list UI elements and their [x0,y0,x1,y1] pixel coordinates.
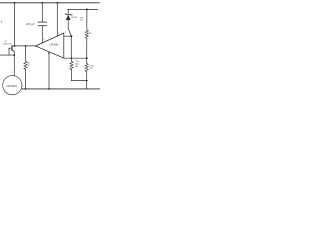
op-amp U1 triangle [36,33,64,58]
svg-text:(2N2222): (2N2222) [3,43,12,45]
resistor R4 [85,9,88,58]
wire supply pin vertical [56,3,58,36]
resistor R2 [24,46,27,89]
node divider join dot [86,80,88,82]
wire second rail [68,8,98,10]
svg-text:3: 3 [43,39,44,41]
node emitter junction dot [13,54,15,56]
wire D1 anode lead [68,20,71,36]
wire amp pin 4 down [48,53,50,89]
node mid divider junction dot [86,57,88,59]
resistor R3 [70,58,73,80]
svg-text:6: 6 [58,33,59,35]
wire ground pin horizontal [64,57,87,59]
wire top supply rail [0,2,99,4]
wire feedback horizontal [64,35,72,37]
svg-text:1N914: 1N914 [71,17,78,19]
svg-text:S: S [1,20,3,24]
node pin 4 ground dot [48,88,50,90]
resistor R5 [85,58,88,80]
transducer circle [3,76,22,95]
node collector junction dot [14,2,16,4]
wire bottom ground rail [22,88,100,90]
wire base lead down [8,48,10,55]
node collector tap dot [14,45,16,47]
svg-text:1: 1 [12,72,13,74]
node C1 top dot [41,2,43,4]
wire C1 bottom to amp pin [41,26,43,43]
wire collector vertical [14,3,16,45]
svg-text:UM3561E: UM3561E [6,85,17,88]
wire C1 top vertical [41,3,43,22]
svg-text:LM386: LM386 [49,42,58,46]
svg-text:220 µF: 220 µF [26,22,35,26]
node feedback junction dot [70,35,72,37]
wire emitter vertical to transducer [13,52,15,76]
wire divider join horizontal [72,80,87,82]
wire left edge horizontal [0,54,14,56]
node second rail junction dot [86,8,88,10]
wire feedback vertical down [70,36,72,58]
transistor Q1 [9,45,15,52]
wire collector tap horizontal to amp input [14,45,36,47]
svg-text:2: 2 [23,86,24,88]
svg-text:4: 4 [65,60,66,62]
svg-text:2: 2 [65,31,66,33]
node R2 top junction dot [25,45,27,47]
node cross junction dot [71,57,73,59]
node R2 bottom junction dot [25,88,27,90]
diode D1 zener [65,9,71,20]
capacitor C1 [38,22,47,26]
node supply pin dot [56,2,58,4]
node amp pin 4 circle [48,52,50,54]
wire divider to ground rail [86,81,88,89]
